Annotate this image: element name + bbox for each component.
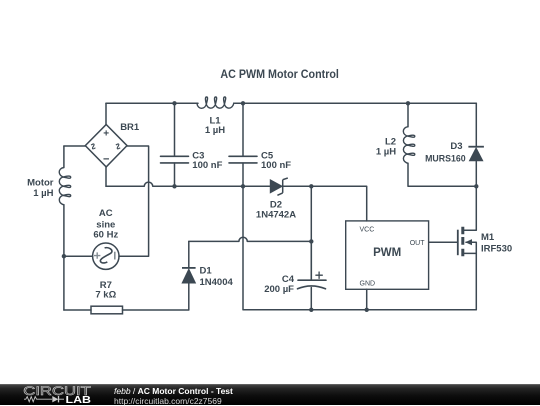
diode D1 xyxy=(182,268,196,283)
svg-text:OUT: OUT xyxy=(410,240,426,247)
capacitor C4 curved plate xyxy=(298,286,326,289)
inductor L2 coil xyxy=(403,127,414,164)
svg-text:D3: D3 xyxy=(450,141,462,152)
D2 zener bar xyxy=(277,178,287,195)
svg-text:60 Hz: 60 Hz xyxy=(93,230,118,241)
svg-text:M1: M1 xyxy=(481,232,495,243)
junction D1 cathode / C4 top xyxy=(309,239,313,243)
capacitor C5 leads xyxy=(242,103,244,186)
wire bottom bus xyxy=(243,186,476,309)
junction C3 bottom xyxy=(172,184,176,188)
svg-text:1N4004: 1N4004 xyxy=(200,277,234,288)
MOSFET body lead xyxy=(466,242,476,253)
inductor L2 leads xyxy=(408,103,476,186)
wire bridge top lead xyxy=(105,103,107,124)
svg-text:GND: GND xyxy=(360,281,376,288)
D2 triangle xyxy=(270,180,282,193)
inductor L1 xyxy=(197,97,234,108)
MOSFET M1 xyxy=(458,227,463,256)
footer url text xyxy=(114,396,222,406)
svg-text:100 nF: 100 nF xyxy=(192,160,222,171)
PWM GND pin xyxy=(366,289,368,310)
D1 cathode bar xyxy=(182,267,196,269)
AC source circle xyxy=(93,243,119,269)
inductor Motor coil xyxy=(59,168,70,205)
M1 body arrow xyxy=(465,239,472,245)
svg-text:MURS160: MURS160 xyxy=(425,153,466,164)
AC source V1 xyxy=(93,243,119,269)
wire bridge bottom lead xyxy=(105,167,107,186)
svg-text:1N4742A: 1N4742A xyxy=(256,209,296,220)
junction L2 top xyxy=(406,101,410,105)
diode D3 xyxy=(468,147,484,161)
junction C3 top xyxy=(172,101,176,105)
logo diode triangle xyxy=(52,396,58,402)
capacitor C5 plates xyxy=(229,156,257,163)
svg-text:IRF530: IRF530 xyxy=(481,243,512,254)
capacitor C3 plates xyxy=(161,156,189,163)
svg-text:AC: AC xyxy=(99,208,113,219)
MOSFET drain lead xyxy=(464,186,476,230)
svg-text:1 µH: 1 µH xyxy=(33,188,53,199)
bridge rectifier BR1 xyxy=(85,125,127,167)
junction C5 bottom xyxy=(241,184,245,188)
capacitor C4 plus sign xyxy=(316,272,322,278)
footer bar xyxy=(0,384,540,405)
D1 triangle xyxy=(182,269,195,283)
svg-text:1 µH: 1 µH xyxy=(205,125,225,136)
diode D3 leads xyxy=(475,103,477,186)
capacitor C3 leads xyxy=(174,103,176,186)
svg-text:LAB: LAB xyxy=(66,395,92,405)
resistor R7 xyxy=(91,306,123,314)
junction motor / AC / R7 xyxy=(62,254,66,258)
svg-text:−: − xyxy=(103,154,109,166)
svg-text:Motor: Motor xyxy=(27,178,54,189)
capacitor C4 top plate xyxy=(298,279,326,281)
wire D1 bottom lead xyxy=(123,284,189,311)
svg-text:PWM: PWM xyxy=(373,247,401,259)
PWM block U1 xyxy=(346,221,429,289)
AC source plus terminal mark xyxy=(94,252,100,258)
wire D2 cathode to VCC corner xyxy=(283,186,367,221)
wire left vertical above motor xyxy=(63,146,65,168)
capacitor C4 leads xyxy=(310,242,312,310)
logo resistor zigzag and wire xyxy=(24,397,64,402)
junction PWM GND xyxy=(365,308,369,312)
svg-text:BR1: BR1 xyxy=(120,122,140,133)
footer author and title text xyxy=(114,386,233,396)
svg-text:1 µH: 1 µH xyxy=(376,146,396,157)
M1 gate bar xyxy=(457,230,459,256)
wire top bus right xyxy=(235,102,477,104)
svg-text:VCC: VCC xyxy=(360,227,375,234)
wire AC left lead xyxy=(64,255,93,257)
MOSFET source lead xyxy=(464,252,476,254)
zener D2 xyxy=(270,178,288,195)
junction C4 bottom xyxy=(309,308,313,312)
CircuitLab logo xyxy=(0,384,100,405)
AC source minus terminal mark xyxy=(114,252,116,260)
wire D1 top lead xyxy=(188,241,190,267)
D3 cathode bar xyxy=(468,146,484,148)
svg-text:D1: D1 xyxy=(200,266,213,277)
svg-text:AC PWM Motor Control: AC PWM Motor Control xyxy=(220,67,339,81)
D3 triangle xyxy=(470,148,483,161)
junction C5 top xyxy=(241,101,245,105)
logo diode bar xyxy=(58,396,60,402)
junction D2 cathode node xyxy=(309,184,313,188)
M1 channel bars xyxy=(461,227,464,256)
wire left vertical below motor xyxy=(63,205,65,310)
wire bridge right lead down to AC xyxy=(119,146,149,256)
wire D1 horizontal with hop xyxy=(189,237,311,241)
wire vertical x311 xyxy=(310,186,312,279)
svg-text:+: + xyxy=(103,129,109,140)
junction D3 anode / drain xyxy=(474,184,478,188)
PWM OUT wire xyxy=(429,241,457,243)
wire bridge left lead xyxy=(64,145,85,147)
svg-text:200 µF: 200 µF xyxy=(264,284,294,295)
svg-text:7 kΩ: 7 kΩ xyxy=(95,289,116,300)
svg-text:100 nF: 100 nF xyxy=(261,160,291,171)
AC source sine squiggle xyxy=(100,248,112,263)
wire R7 left xyxy=(64,309,91,311)
wire bus y186 with hop xyxy=(106,182,270,186)
wire top bus left xyxy=(106,102,198,104)
